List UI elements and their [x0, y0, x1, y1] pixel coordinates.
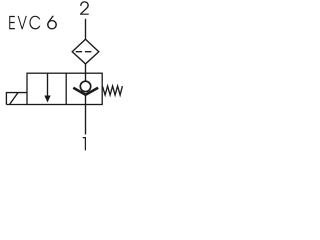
port label 2 [80, 1, 89, 14]
solenoid S1 [6, 93, 27, 105]
wire body top to check ball [85, 73, 87, 81]
return spring [102, 86, 122, 95]
position divider [65, 73, 67, 104]
wire port 2 to filter [85, 19, 87, 40]
port label 1 [83, 137, 86, 150]
wire port 1 [85, 105, 87, 135]
wire filter to valve body [85, 64, 87, 73]
check valve seat [73, 88, 98, 95]
check valve ball [80, 81, 90, 91]
wire seat to body bottom [85, 94, 87, 105]
label EVC6 [9, 16, 57, 30]
valve body V1 (2-position envelope) [27, 73, 102, 104]
flow arrow (open position) [44, 73, 50, 102]
filter F (diamond with dashed element) [72, 39, 99, 64]
